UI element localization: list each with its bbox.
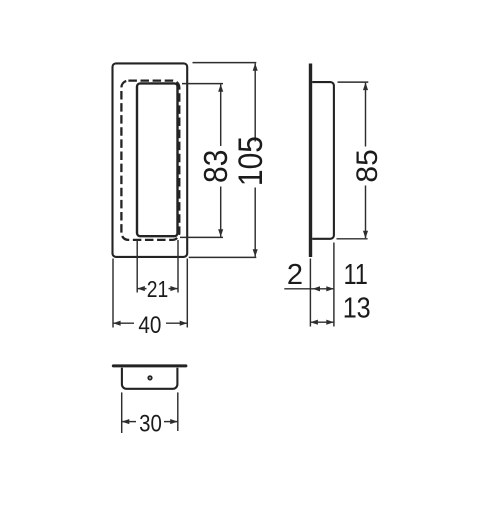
svg-text:85: 85 [351, 149, 384, 182]
extension line 105 bottom [189, 256, 257, 258]
bottom view center hole [148, 376, 151, 379]
svg-text:105: 105 [231, 136, 269, 186]
extension line 83 bottom [180, 236, 223, 238]
extension line from flange for 11/13 [309, 259, 311, 327]
bottom view cup outline [122, 368, 177, 389]
dimension 21 [137, 276, 178, 302]
dimension 85 [351, 83, 384, 239]
extension lines for 30 [121, 392, 123, 433]
side view face plate (2mm flange) [309, 64, 312, 258]
dimension 83 [196, 84, 234, 237]
svg-text:83: 83 [196, 150, 234, 183]
dimension 30 [122, 411, 178, 438]
svg-text:11: 11 [343, 259, 368, 291]
svg-text:13: 13 [343, 293, 371, 325]
svg-text:30: 30 [139, 411, 162, 438]
bottom view flange bar [112, 364, 188, 367]
dimension 40 [113, 312, 187, 339]
front view outer face plate [113, 63, 188, 257]
extension line 105 top [193, 62, 257, 64]
extension lines for 21 [136, 240, 138, 293]
extension line 85 top [338, 81, 369, 83]
front view finger opening [137, 83, 178, 236]
extension line from cup back for 11/13 [333, 243, 335, 327]
extension line 83 top [182, 83, 223, 85]
front view hidden recess cup (dashed) [121, 81, 179, 240]
svg-text:40: 40 [138, 312, 161, 339]
leader line for 2 and dimension 11 [284, 286, 334, 291]
svg-text:21: 21 [147, 276, 169, 302]
dimension 105 [231, 63, 269, 257]
extension lines for 40 [112, 259, 114, 328]
dimension 13 [310, 320, 334, 325]
extension line 85 bottom [337, 238, 368, 240]
side view recess cup profile [312, 82, 334, 239]
svg-text:2: 2 [287, 259, 303, 291]
